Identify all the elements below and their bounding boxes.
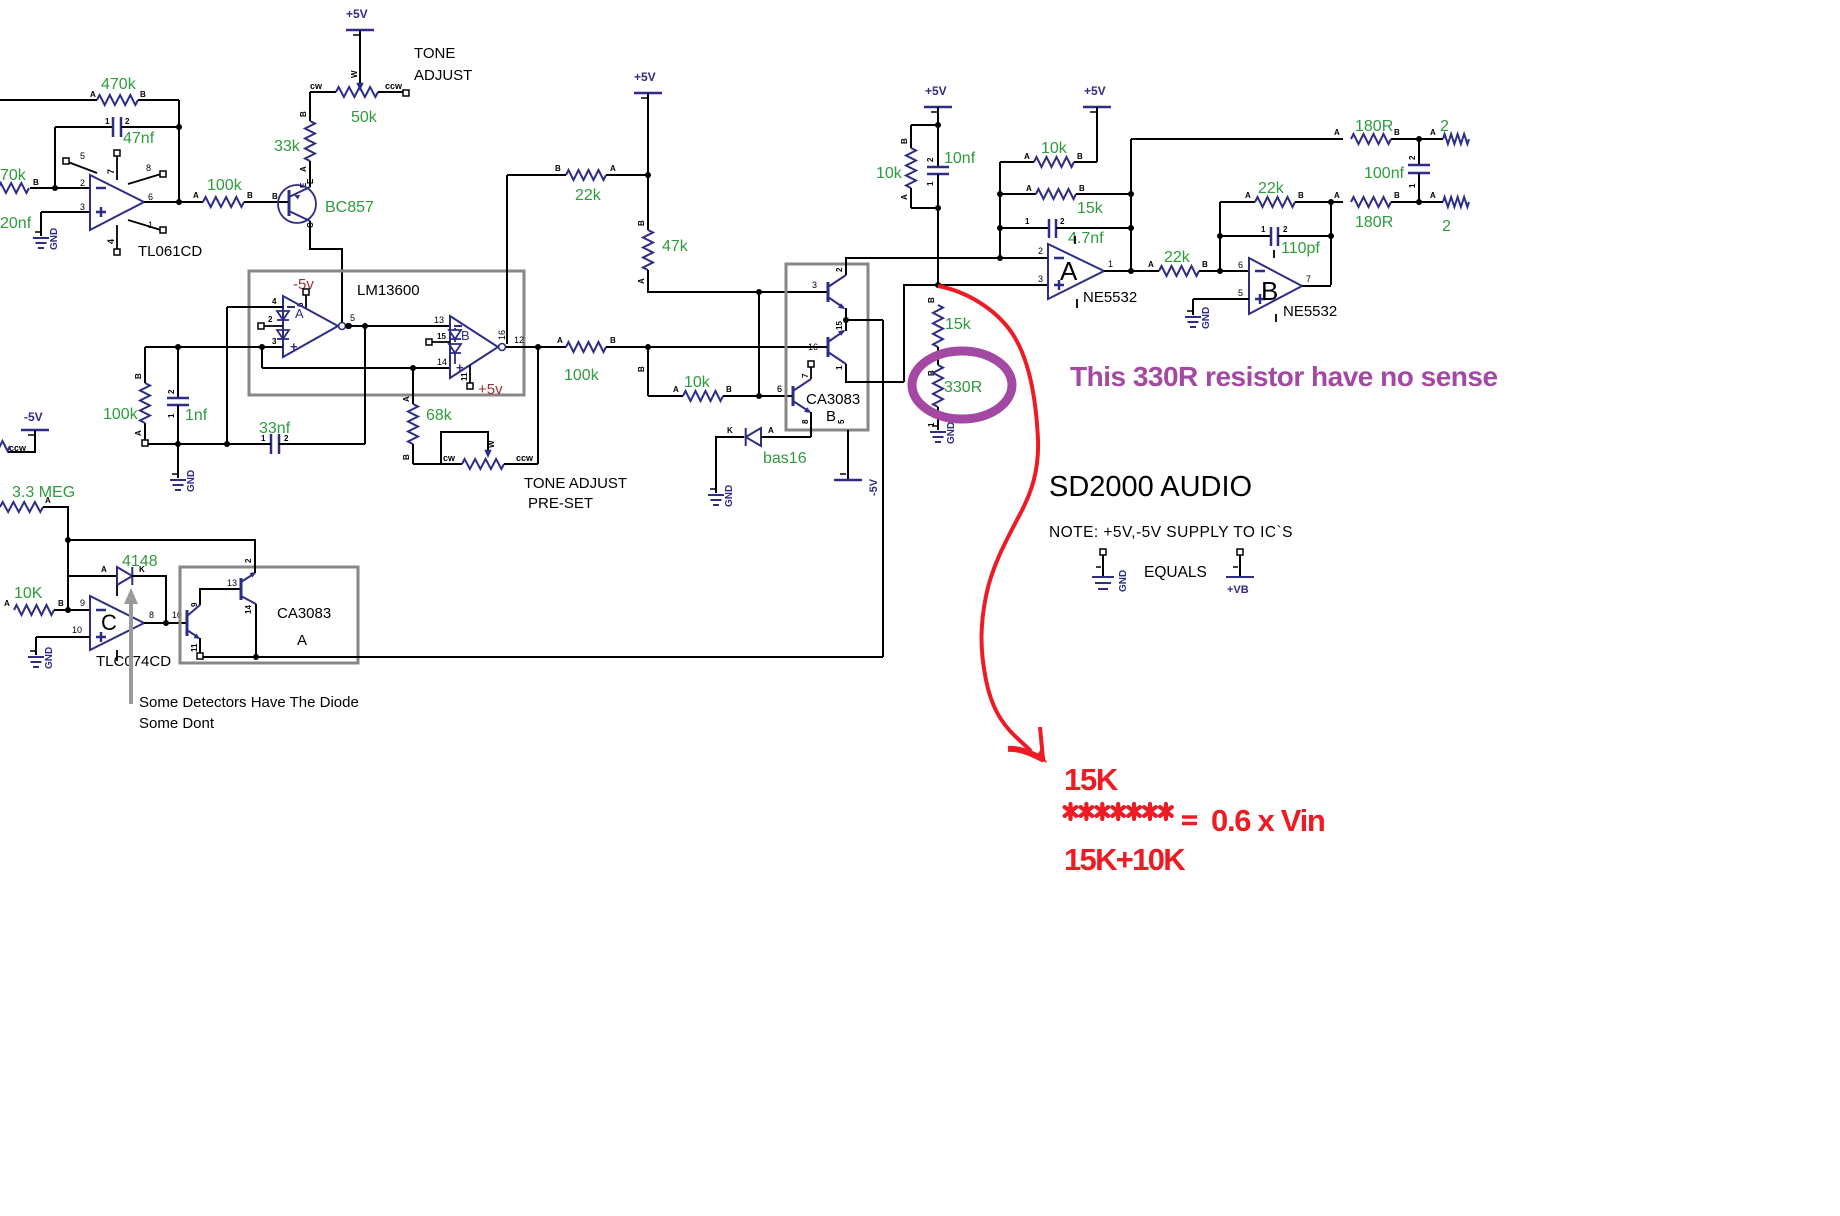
svg-text:ADJUST: ADJUST <box>414 67 472 84</box>
svg-text:TL061CD: TL061CD <box>138 243 202 260</box>
pin 7 stub TL061 <box>106 150 120 180</box>
label 3.3 MEG <box>12 484 75 501</box>
resistor 15k (divider) <box>927 297 943 347</box>
svg-text:GND: GND <box>44 647 55 669</box>
resistor partial (top right) <box>1443 134 1469 144</box>
wire 110pf right <box>1278 235 1331 237</box>
svg-text:A: A <box>1430 128 1436 137</box>
svg-text:47k: 47k <box>662 238 689 255</box>
svg-text:GND: GND <box>1201 307 1212 329</box>
label NE5532 B <box>1283 303 1337 320</box>
node 100nf top <box>1416 136 1422 142</box>
svg-text:LM13600: LM13600 <box>357 282 420 299</box>
wire -5V to pot ccw <box>8 430 35 453</box>
resistor 15k (feedback) <box>1036 184 1085 199</box>
svg-text:14: 14 <box>244 605 253 614</box>
transistor Q6 CA3083A (right) <box>241 572 256 614</box>
label TONE ADJUST <box>414 45 472 84</box>
pin10 wire TLC074 <box>36 625 90 637</box>
wire to 4148 anode <box>68 565 117 576</box>
svg-text:B: B <box>610 336 616 345</box>
ground GND (1nf node) <box>170 470 197 492</box>
svg-text:100k: 100k <box>103 406 139 423</box>
node 4.7nf left <box>997 225 1003 231</box>
ground GND (bas16) <box>708 485 735 507</box>
wire 330R to gnd <box>927 407 938 430</box>
wire 70k to op-amp pin2 <box>30 187 90 189</box>
wire Q5 emitter pad <box>197 638 203 659</box>
label Some Detectors note <box>139 694 359 732</box>
svg-text:100k: 100k <box>564 367 600 384</box>
svg-text:22k: 22k <box>1164 249 1191 266</box>
label 100k vertical <box>103 406 139 423</box>
resistor 100k (B output) <box>566 336 616 352</box>
node 1nf bottom <box>175 441 181 447</box>
label 22k (interstage) <box>1164 249 1191 266</box>
svg-text:3: 3 <box>812 280 817 290</box>
wire -5V stub <box>837 419 846 424</box>
pin 1 stub TL061 <box>128 220 166 233</box>
pin7 pad <box>808 361 814 379</box>
power +5V (tone pot) <box>346 7 374 35</box>
wire pot cw down to 33k <box>299 92 310 121</box>
svg-text:A: A <box>610 164 616 173</box>
wire node to CA3083A pin2 <box>68 539 256 541</box>
pin16 label <box>497 330 507 340</box>
wire 10k to pin6 <box>723 384 793 396</box>
resistor 68k <box>408 404 418 444</box>
label 10k (detector) <box>684 374 711 391</box>
wire 68k to preset cw <box>413 453 462 464</box>
wire bias line to op-amp B pin14 <box>262 367 450 369</box>
svg-text:A: A <box>1334 128 1340 137</box>
svg-text:4: 4 <box>106 239 116 244</box>
svg-text:A: A <box>1430 191 1436 200</box>
wire 10K to pin9 <box>54 598 90 610</box>
svg-text:B: B <box>402 454 411 460</box>
svg-text:11: 11 <box>460 372 469 381</box>
wire Q3 emitter up <box>845 320 847 331</box>
svg-text:3: 3 <box>1038 274 1043 284</box>
svg-text:EQUALS: EQUALS <box>1144 564 1207 581</box>
svg-text:180R: 180R <box>1355 118 1393 135</box>
wire pot ccw to pad <box>378 90 409 96</box>
wire 10k to left rail <box>1000 162 1034 258</box>
pin 8 stub TL061 <box>128 163 166 184</box>
svg-text:2: 2 <box>1283 225 1288 234</box>
wire pin3 <box>938 274 1048 285</box>
svg-text:0.6 x Vin: 0.6 x Vin <box>1211 803 1325 838</box>
resistor 47k <box>637 220 653 284</box>
wire 33nf branch vertical <box>364 326 366 444</box>
svg-text:7: 7 <box>801 373 810 378</box>
label CA3083 A <box>277 605 331 649</box>
svg-text:15: 15 <box>835 321 844 330</box>
label 100k (B output) <box>564 367 600 384</box>
wire pin6 up <box>1219 202 1221 271</box>
potentiometer 50k preset <box>462 459 504 469</box>
wire 22k right <box>606 164 648 175</box>
pin6 label <box>1238 260 1243 270</box>
wire 10k top corner <box>900 125 938 148</box>
label 50k <box>351 109 378 126</box>
label 100k <box>207 177 243 194</box>
svg-text:A: A <box>4 599 10 608</box>
wire preset ccw up to B output <box>537 347 539 464</box>
svg-text:Some Detectors Have The Diode: Some Detectors Have The Diode <box>139 694 359 711</box>
red annotation curve <box>938 286 1038 751</box>
svg-text:A: A <box>1148 260 1154 269</box>
svg-text:2: 2 <box>268 315 273 324</box>
node detector output <box>253 654 259 660</box>
svg-text:1: 1 <box>167 413 176 418</box>
svg-text:B: B <box>826 408 836 425</box>
resistor 3.3MEG <box>0 496 51 512</box>
svg-text:B: B <box>134 373 143 379</box>
svg-text:A: A <box>1334 191 1340 200</box>
svg-text:47nf: 47nf <box>123 130 155 147</box>
svg-text:100nf: 100nf <box>1364 165 1405 182</box>
svg-text:K: K <box>727 426 733 435</box>
wire 22k left and down to B out <box>507 175 566 344</box>
svg-text:5: 5 <box>837 419 846 424</box>
svg-text:15K: 15K <box>1064 762 1119 797</box>
wire input feed to 470k <box>0 99 97 101</box>
node pin3 link <box>756 289 762 295</box>
label 33nf <box>259 420 291 437</box>
power +5V (bias) <box>924 84 952 112</box>
power +5V (22k node) <box>634 70 662 98</box>
wire 100k to CA3083 pin16 <box>606 346 828 348</box>
wire Q6 collector down <box>255 604 257 657</box>
svg-text:B: B <box>637 220 646 226</box>
svg-text:B: B <box>927 297 936 303</box>
svg-text:4.7nf: 4.7nf <box>1068 230 1104 247</box>
svg-text:470k: 470k <box>101 76 137 93</box>
label +5v supply pin <box>467 381 503 398</box>
svg-text:15k: 15k <box>1077 200 1104 217</box>
wire 15k-330R join <box>927 347 938 376</box>
wire 10k bottom corner <box>900 188 938 208</box>
svg-text:50k: 50k <box>351 109 378 126</box>
svg-text:+5V: +5V <box>346 7 368 21</box>
pin3 wire op-amp A <box>145 337 283 347</box>
pin2 pad op-amp A <box>258 315 283 329</box>
svg-text:-5V: -5V <box>868 478 880 496</box>
label -5v supply pin <box>293 276 314 295</box>
svg-text:22k: 22k <box>1258 180 1285 197</box>
wire 15k right <box>1076 193 1131 195</box>
label TL061CD <box>138 243 202 260</box>
label 4148 <box>122 553 158 570</box>
svg-text:B: B <box>900 138 909 144</box>
svg-text:+5V: +5V <box>634 70 656 84</box>
svg-text:330R: 330R <box>944 379 982 396</box>
resistor 180R (bottom) <box>1351 191 1400 207</box>
IC box CA3083 A <box>180 567 358 663</box>
svg-text:NOTE: +5V,-5V SUPPLY TO IC`S: NOTE: +5V,-5V SUPPLY TO IC`S <box>1049 524 1293 541</box>
svg-text:100k: 100k <box>207 177 243 194</box>
ground GND (TL061 pin3) <box>33 228 60 250</box>
node pin2 <box>997 255 1003 261</box>
svg-text:ccw: ccw <box>9 443 27 453</box>
pot -5V (left edge) <box>21 410 49 435</box>
node 10K/pin9 <box>65 607 71 613</box>
svg-text:B: B <box>461 328 470 343</box>
label 10k (bias) <box>876 165 903 182</box>
wire preset ccw <box>504 453 538 464</box>
wire 3.3MEG to node <box>43 507 68 610</box>
svg-text:10k: 10k <box>684 374 711 391</box>
potentiometer 50k TONE ADJUST <box>310 81 403 97</box>
pin14 label <box>437 357 447 367</box>
node pin6 <box>1217 268 1223 274</box>
svg-text:Some Dont: Some Dont <box>139 715 215 732</box>
transistor Q4 CA3083B (bottom) <box>777 373 811 424</box>
node emitter/15 junction <box>843 317 849 323</box>
wire inverting input vertical <box>54 127 56 188</box>
label 22k (input) <box>575 187 602 204</box>
label 10k (feedback) <box>1041 140 1068 157</box>
label 15k (feedback) <box>1077 200 1104 217</box>
capacitor 4.7nf <box>1049 217 1065 238</box>
svg-text:+5v: +5v <box>478 381 503 398</box>
resistor 10K (TLC074 in) <box>4 599 64 615</box>
svg-text:B: B <box>1202 260 1208 269</box>
svg-text:A: A <box>402 396 411 402</box>
svg-text:A: A <box>297 632 307 649</box>
svg-text:B: B <box>272 192 278 201</box>
svg-text:GND: GND <box>724 485 735 507</box>
svg-text:W: W <box>487 440 496 448</box>
svg-text:C: C <box>101 610 117 635</box>
resistor 10k (bias) <box>906 148 916 188</box>
diode D2 bas16 <box>727 426 774 446</box>
resistor 10k (detector) <box>683 385 732 401</box>
wire out bottom <box>1331 191 1343 202</box>
svg-text:TONE: TONE <box>414 45 455 62</box>
node 22k/+5V <box>645 172 651 178</box>
ground GND (330R) <box>930 422 957 444</box>
svg-text:10nf: 10nf <box>944 150 976 167</box>
wire pot cw <box>310 91 336 93</box>
svg-text:B: B <box>33 178 39 187</box>
svg-text:10K: 10K <box>14 585 43 602</box>
svg-text:15k: 15k <box>945 316 972 333</box>
capacitor 110pf <box>1271 225 1288 246</box>
svg-text:GND: GND <box>49 228 60 250</box>
red formula asterisks <box>1065 804 1172 819</box>
label 180R (bottom) <box>1355 214 1393 231</box>
transistor Q5 CA3083A (left) <box>187 602 200 652</box>
wire link pin3-pin6 vertical <box>758 292 760 396</box>
svg-text:+: + <box>290 339 298 354</box>
svg-text:15: 15 <box>437 332 446 341</box>
node feedback right top <box>1128 191 1134 197</box>
svg-text:2: 2 <box>1408 155 1417 160</box>
wire 180R top right <box>1391 128 1443 139</box>
svg-text:A: A <box>673 385 679 394</box>
svg-text:110pf: 110pf <box>1281 240 1320 257</box>
label LM13600 <box>357 282 420 299</box>
resistor 100k vertical <box>134 347 150 446</box>
svg-text:SD2000 AUDIO: SD2000 AUDIO <box>1049 471 1252 503</box>
svg-text:15K+10K: 15K+10K <box>1064 842 1186 877</box>
wire 4.7nf left stub <box>1000 217 1049 228</box>
IC box CA3083 B <box>786 264 868 430</box>
svg-text:10k: 10k <box>1041 140 1068 157</box>
svg-text:1: 1 <box>1108 259 1113 269</box>
wire cap47nf left <box>55 126 113 128</box>
pin11 stub op-amp B <box>460 365 470 384</box>
red arrowhead <box>1008 727 1047 763</box>
label 2 (top right) <box>1440 118 1449 135</box>
svg-text:B: B <box>555 164 561 173</box>
resistor partial (bottom right) <box>1443 197 1469 207</box>
svg-text:GND: GND <box>186 470 197 492</box>
svg-text:6: 6 <box>1238 260 1243 270</box>
svg-text:A: A <box>768 426 774 435</box>
pin7 out wire <box>1302 274 1331 286</box>
svg-text:20nf: 20nf <box>0 215 32 232</box>
node pin6/pin3 link <box>756 393 762 399</box>
label 4.7nf <box>1068 230 1104 247</box>
wire 68k bottom <box>402 444 413 464</box>
wire 100k to BC857 base <box>244 192 289 202</box>
node pin4 branch bottom <box>224 441 230 447</box>
node NE5532A output <box>1128 268 1134 274</box>
label 70k <box>0 167 27 184</box>
wire 10nf to pin3 node <box>937 174 939 285</box>
svg-text:B: B <box>637 366 646 372</box>
svg-text:1nf: 1nf <box>185 407 208 424</box>
svg-text:A: A <box>134 430 143 436</box>
wire +5V to pot wiper <box>359 30 361 84</box>
svg-text:A: A <box>101 565 107 574</box>
wire 33k to BC857 emitter <box>299 161 310 188</box>
node 110pf left <box>1217 233 1223 239</box>
svg-text:B: B <box>1394 191 1400 200</box>
resistor 22k (feedback B) <box>1255 191 1304 207</box>
node feedback/cap junction <box>176 124 182 130</box>
wire pin4 branch vertical <box>226 307 228 444</box>
svg-text:4148: 4148 <box>122 553 158 570</box>
svg-text:6: 6 <box>148 192 153 202</box>
wire 110pf left stub <box>1220 225 1271 236</box>
label 180R (top) <box>1355 118 1393 135</box>
svg-text:E: E <box>306 178 315 184</box>
power +5V (NE5532A) <box>1083 84 1111 112</box>
svg-text:1: 1 <box>1025 217 1030 226</box>
svg-text:1: 1 <box>1408 183 1417 188</box>
wire op-amp pin3 to gnd <box>41 212 90 236</box>
svg-text:5: 5 <box>1238 288 1243 298</box>
label TONE ADJUST PRE-SET <box>524 475 627 512</box>
node pin3 bias <box>935 282 941 288</box>
capacitor 100nf <box>1408 139 1430 202</box>
wiper loop preset <box>441 432 496 464</box>
wire emitter node right <box>846 319 883 321</box>
resistor 100k (TL061 out) <box>203 191 253 207</box>
node inverting input <box>52 185 58 191</box>
equals +VB symbol <box>1226 549 1254 596</box>
svg-text:B: B <box>1261 276 1278 306</box>
pin5 output wire op-amp A <box>345 313 450 326</box>
resistor 22k (interstage) <box>1159 260 1208 276</box>
diode D1 4148 <box>117 565 145 585</box>
wire +5V to 10k <box>1074 107 1097 162</box>
svg-text:2: 2 <box>167 389 176 394</box>
wire detector output bus <box>203 656 883 658</box>
svg-text:12: 12 <box>514 335 524 345</box>
svg-text:11: 11 <box>190 643 199 652</box>
svg-text:10: 10 <box>72 625 82 635</box>
svg-text:8: 8 <box>146 163 151 173</box>
svg-text:TLC074CD: TLC074CD <box>96 653 171 670</box>
svg-text:PRE-SET: PRE-SET <box>528 495 593 512</box>
svg-text:10k: 10k <box>876 165 903 182</box>
svg-text:B: B <box>247 191 253 200</box>
wire pin2 <box>846 246 1048 258</box>
power -5V (CA3083B) <box>834 430 880 496</box>
node collector/A-output <box>345 323 351 329</box>
svg-text:A: A <box>90 90 96 99</box>
svg-text:cw: cw <box>310 81 323 91</box>
svg-text:BC857: BC857 <box>325 199 374 216</box>
svg-text:A: A <box>193 191 199 200</box>
resistor 180R (top) <box>1351 128 1400 144</box>
svg-text:70k: 70k <box>0 167 27 184</box>
label 10K <box>14 585 43 602</box>
svg-text:2: 2 <box>1038 246 1043 256</box>
svg-text:B: B <box>726 385 732 394</box>
label 330R <box>944 379 982 396</box>
node TL061 output <box>176 199 182 205</box>
wire Q4 emitter down <box>810 412 812 437</box>
svg-text:GND: GND <box>1118 570 1129 592</box>
svg-text:NE5532: NE5532 <box>1283 303 1337 320</box>
svg-text:1: 1 <box>105 117 110 126</box>
node 100k/10k branch <box>645 344 651 350</box>
svg-text:5: 5 <box>80 151 85 161</box>
transistor Q1 BC857 <box>278 178 316 228</box>
svg-text:+5V: +5V <box>925 84 947 98</box>
pin5 wire <box>1193 288 1249 315</box>
svg-text:+5V: +5V <box>1084 84 1106 98</box>
transistor Q3 CA3083B (middle) <box>808 330 846 370</box>
resistor 330R <box>933 365 943 407</box>
label 22k (feedback B) <box>1258 180 1285 197</box>
svg-text:A: A <box>637 278 646 284</box>
svg-text:4: 4 <box>272 297 277 306</box>
wire Q6 emitter up <box>244 540 255 573</box>
svg-text:ccw: ccw <box>385 81 403 91</box>
svg-text:8: 8 <box>149 610 154 620</box>
svg-text:1: 1 <box>1261 225 1266 234</box>
label CA3083 B <box>806 391 860 425</box>
wire 4148 cathode down <box>132 576 166 623</box>
svg-text:68k: 68k <box>426 407 453 424</box>
svg-text:A: A <box>557 336 563 345</box>
svg-text:13: 13 <box>434 315 444 325</box>
svg-text:2: 2 <box>80 178 85 188</box>
wire 22k fb right <box>1295 201 1343 203</box>
wire Q5 collector to Q6 base <box>200 589 241 605</box>
diode stack op-amp A input <box>277 307 289 347</box>
svg-text:33k: 33k <box>274 138 301 155</box>
svg-text:B: B <box>1077 152 1083 161</box>
wire pin3 node down <box>261 347 263 368</box>
